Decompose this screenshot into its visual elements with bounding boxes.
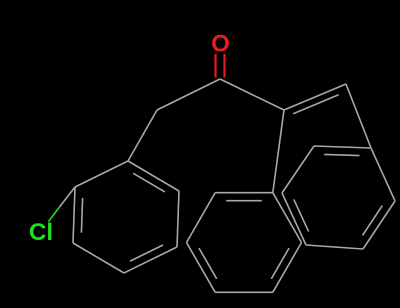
wire: =CH to phenyl-R	[346, 84, 371, 148]
svg-text:O: O	[211, 31, 230, 58]
C-Cl bond	[60, 187, 76, 207]
benzene ring: right phenyl	[371, 148, 395, 201]
wire: Calpha to bottom phenyl	[273, 110, 284, 193]
benzene ring: bottom phenyl	[273, 193, 302, 243]
wire: CO-CH2	[157, 79, 220, 110]
C=C double bond	[284, 84, 346, 110]
wire: CO-Calpha	[220, 79, 284, 110]
wire: CH2-Ar(Cl) ipso	[128, 110, 157, 161]
benzene ring: chlorophenyl (left)	[75, 161, 128, 187]
carbonyl C=O double bond (red)	[214, 54, 216, 78]
svg-text:Cl: Cl	[29, 219, 53, 246]
